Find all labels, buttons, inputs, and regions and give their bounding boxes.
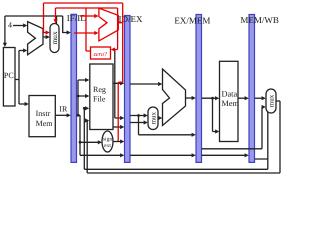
wire zero tap and register file busA to ID/EX — [113, 50, 122, 118]
wire ALU output to EX/MEM — [186, 97, 193, 99]
svg-text:ext: ext — [104, 143, 111, 149]
wire EX/MEM ALU result to data memory — [202, 98, 217, 131]
svg-text:sign: sign — [103, 137, 112, 143]
svg-text:Mem: Mem — [36, 119, 54, 128]
svg-text:mux: mux — [50, 31, 59, 45]
wire register number return from MEM/WB to register file — [84, 108, 267, 169]
pipeline register IF/ID — [71, 14, 77, 162]
red wire branch target to PC mux — [44, 3, 123, 33]
ALU (EX stage) — [163, 69, 186, 126]
sign extend oval — [102, 131, 113, 152]
wire instruction memory to IF/ID (IR) — [55, 114, 67, 116]
wire register number EX/MEM to MEM/WB — [202, 154, 246, 156]
svg-text:IR: IR — [59, 105, 68, 114]
PC+4 adder — [28, 22, 43, 55]
svg-text:PC: PC — [4, 71, 14, 80]
wire WB mux output return to register file write data — [87, 101, 280, 173]
pipeline register EX/MEM — [196, 15, 202, 163]
red wire sign ext up to top line — [118, 3, 123, 141]
red wire zero to PC mux select — [56, 8, 118, 20]
svg-text:4: 4 — [8, 21, 12, 30]
wire register file busB to ID/EX — [113, 126, 122, 128]
wire IR bus after IF/ID — [77, 80, 121, 155]
wire sign extend output to ID/EX — [113, 141, 121, 143]
svg-text:Reg: Reg — [93, 85, 106, 94]
wire PC out to adder and instruction memory — [15, 51, 26, 105]
wire 4 to adder — [13, 25, 24, 27]
pipeline register MEM/WB — [249, 15, 255, 163]
pipeline register ID/EX — [125, 16, 131, 163]
branch adder (red) — [99, 8, 118, 41]
red wire adder output down to zero? input — [114, 8, 123, 50]
svg-text:Instr: Instr — [36, 109, 51, 118]
red wire IF/ID to branch adder lower input — [74, 32, 95, 34]
svg-text:EX/MEM: EX/MEM — [174, 16, 210, 26]
svg-text:MEM/WB: MEM/WB — [240, 15, 279, 25]
wire ID/EX busB to EX mux and store bus — [130, 116, 192, 135]
mux before PC (IF mux) — [50, 24, 59, 53]
svg-text:IF/ID: IF/ID — [67, 13, 88, 23]
wire MEM/WB to WB mux upper input — [255, 97, 263, 99]
forwarding mux (EX mux) — [148, 107, 158, 130]
wire EX/MEM bypass under MEM/WB to WB mux — [202, 107, 263, 149]
PC register box — [3, 48, 15, 107]
zero? box (red) — [91, 47, 111, 59]
wire data memory output to MEM/WB — [238, 97, 246, 99]
register file box — [90, 64, 113, 130]
svg-text:Data: Data — [222, 90, 238, 99]
wire destination register number ID/EX to EX/MEM — [130, 154, 192, 156]
wire adder output to mux — [43, 36, 47, 38]
svg-text:zero?: zero? — [93, 51, 108, 58]
wire ID/EX busA to ALU — [130, 83, 159, 85]
svg-text:mux: mux — [149, 111, 157, 124]
red wire IF/ID to branch adder upper input — [80, 15, 95, 17]
data memory box — [220, 61, 239, 141]
wire EX mux output to ALU — [158, 117, 159, 119]
instruction memory box — [29, 96, 55, 137]
red wire zero? output up — [86, 8, 91, 51]
wire ID/EX to EX mux lower input — [130, 122, 144, 124]
svg-text:mux: mux — [267, 94, 275, 107]
WB mux — [266, 89, 276, 113]
svg-text:Mem: Mem — [222, 99, 240, 108]
svg-text:File: File — [93, 95, 106, 104]
junction IR taps — [77, 114, 80, 117]
wire mux output feedback to PC and IF/ID — [5, 16, 68, 43]
